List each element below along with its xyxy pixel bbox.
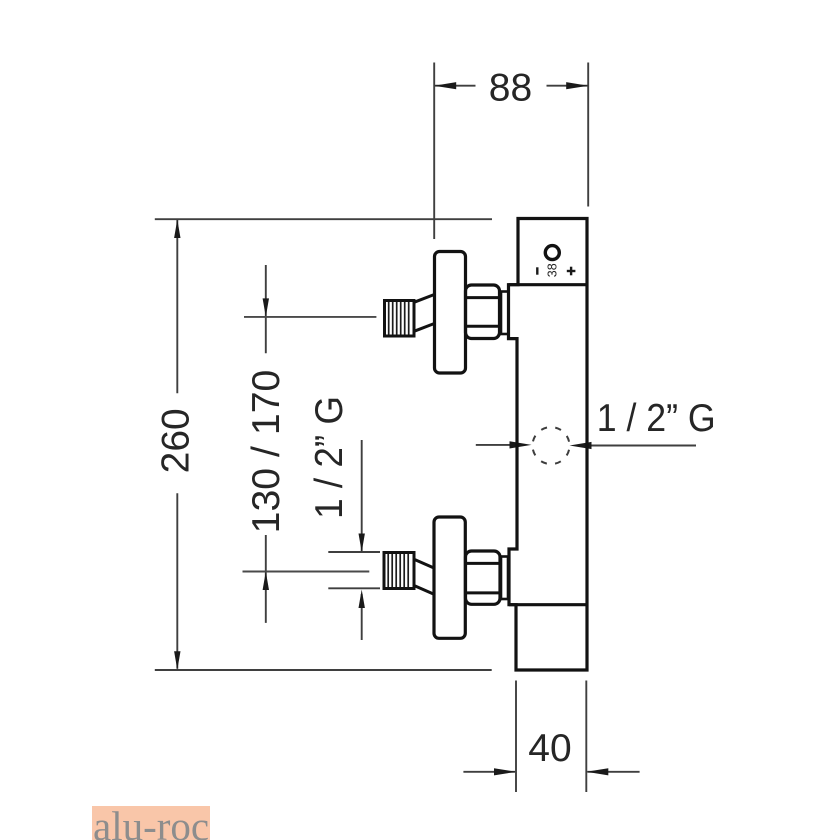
watermark alu-roc (92, 806, 210, 840)
svg-text:130 / 170: 130 / 170 (245, 370, 288, 534)
leader right with arrow (591, 445, 696, 447)
centerline upper valve (244, 316, 376, 318)
lower nipple (384, 553, 414, 589)
lower nut (466, 551, 501, 604)
dashed circle hidden port (533, 427, 570, 464)
dimension line 88 (435, 85, 476, 87)
centerline lower valve (243, 571, 370, 573)
svg-text:88: 88 (489, 66, 532, 109)
lower valve flange (434, 517, 465, 638)
dimension arrows 1/2 G nipple (361, 440, 363, 551)
plus mark (567, 270, 576, 272)
extension lines lower nipple OD (328, 551, 380, 553)
arrow into left body edge (476, 444, 510, 446)
extension lines 40 (515, 681, 517, 793)
extension line top-left of 260 dim (155, 218, 492, 220)
upper nipple (385, 301, 415, 337)
svg-text:38: 38 (546, 263, 560, 277)
svg-text:40: 40 (528, 727, 571, 770)
lower eccentric union (414, 559, 434, 568)
dimension line 40 (463, 771, 515, 773)
body outline (509, 219, 588, 671)
dimension line 130/170 upper arrow (265, 265, 267, 353)
upper valve flange (435, 252, 466, 374)
lower washer cylinder (501, 557, 508, 600)
svg-text:260: 260 (154, 408, 197, 473)
upper eccentric union (414, 295, 434, 303)
upper washer cylinder (501, 292, 509, 335)
svg-text:1 / 2” G: 1 / 2” G (597, 397, 716, 440)
head box bottom separator (509, 283, 588, 286)
dimension line 260 (176, 220, 178, 393)
dimension line 130/170 lower arrow (265, 535, 267, 623)
extension line 88 left (433, 63, 435, 240)
minus mark (536, 267, 538, 274)
temperature ring on head (545, 246, 559, 260)
extension line bottom-left of 260 dim (155, 669, 492, 671)
upper nut (466, 285, 500, 339)
svg-text:1 / 2” G: 1 / 2” G (308, 396, 351, 519)
bottom block top separator (509, 603, 587, 606)
extension line 88 right (587, 63, 589, 207)
